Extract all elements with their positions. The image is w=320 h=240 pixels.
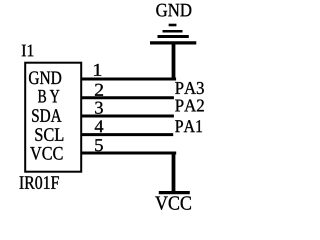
pin 3 name SDA (32, 109, 61, 122)
IC I1 body (25, 63, 81, 172)
wire pin3 to PA2 (81, 115, 174, 118)
net label PA2 (175, 99, 204, 111)
designator I1 (22, 45, 34, 57)
pin number 3 (95, 102, 103, 114)
wire pin5 horizontal (81, 152, 177, 155)
pin 4 name SCL (35, 128, 63, 141)
pin number 2 (95, 84, 103, 96)
power net label GND (156, 4, 191, 17)
pin 1 name GND (29, 71, 61, 84)
value label IR01F (20, 176, 59, 189)
wire pin1 to ground (81, 78, 176, 81)
net label PA3 (175, 82, 204, 94)
pin number 5 (95, 139, 103, 151)
ground symbol earth bar 3 (158, 35, 189, 38)
wire ground stem vertical (172, 44, 176, 80)
wire pin2 to PA3 (81, 96, 174, 99)
power net label VCC (155, 196, 191, 210)
wire pin4 to PA1 (81, 133, 174, 136)
ground symbol earth bar 2 (163, 30, 183, 33)
pin number 1 (94, 64, 101, 76)
power symbol VCC bar (159, 191, 190, 194)
pin 2 name BY (38, 90, 59, 103)
net label PA1 (175, 120, 202, 132)
ground symbol earth bar 1 (top small) (169, 24, 177, 27)
pin 5 name VCC (30, 147, 62, 160)
pin number 4 (95, 120, 104, 132)
ground symbol earth bar 4 (widest) (150, 41, 196, 44)
wire pin5 down to VCC bar (172, 152, 176, 193)
